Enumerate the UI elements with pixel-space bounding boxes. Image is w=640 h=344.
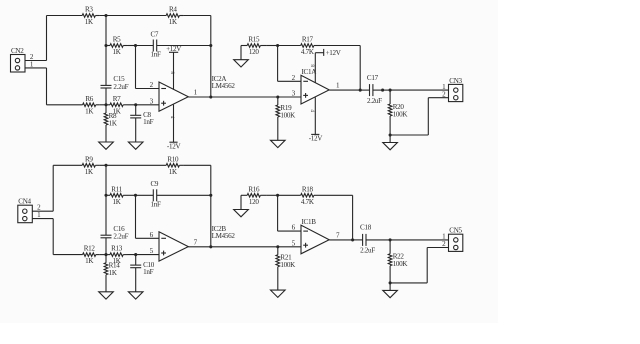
wire <box>266 194 277 196</box>
svg-text:1K: 1K <box>85 257 94 265</box>
svg-text:R13: R13 <box>111 245 123 253</box>
capacitor C10 1nF <box>130 255 155 292</box>
wire inverting input <box>135 46 137 89</box>
capacitor C7 1nF <box>136 30 211 58</box>
svg-text:100K: 100K <box>280 261 296 269</box>
power -12V <box>309 97 324 142</box>
wire output <box>329 239 354 241</box>
ground <box>271 290 286 297</box>
wire <box>183 164 210 166</box>
connector CN4 <box>18 198 33 223</box>
wire <box>136 88 160 90</box>
svg-text:1K: 1K <box>109 119 118 127</box>
wire <box>427 247 448 249</box>
wire <box>277 195 279 231</box>
op-amp IC2A LM4562 <box>159 82 188 111</box>
svg-text:100K: 100K <box>393 260 409 268</box>
wire to output connector <box>390 89 448 91</box>
junction <box>209 44 212 47</box>
IC2B label <box>212 225 236 240</box>
wire <box>383 89 391 91</box>
svg-text:C18: C18 <box>360 224 372 232</box>
resistor R14 1K <box>104 255 120 292</box>
ground <box>128 292 143 299</box>
capacitor C9 1nF <box>136 180 211 208</box>
resistor R8 1K <box>104 105 118 142</box>
wire to ground <box>240 195 242 209</box>
node feedback top <box>104 14 107 17</box>
svg-text:R7: R7 <box>113 95 121 103</box>
wire <box>99 164 166 166</box>
resistor R11 1K <box>106 185 128 206</box>
resistor R12 1K <box>53 245 100 266</box>
IC2A label <box>212 75 236 90</box>
junction <box>209 194 212 197</box>
svg-text:R12: R12 <box>84 245 96 253</box>
resistor R19 100K <box>276 97 296 140</box>
svg-text:+12V: +12V <box>326 49 342 57</box>
wire <box>277 46 279 82</box>
wire <box>389 135 391 143</box>
wire <box>278 230 301 232</box>
wire down to input row <box>46 68 48 105</box>
wire <box>389 283 391 291</box>
svg-text:1K: 1K <box>113 198 122 206</box>
junction <box>389 89 392 92</box>
wire feedback vertical <box>352 195 354 240</box>
junction <box>381 89 384 92</box>
wire <box>426 248 428 283</box>
svg-text:1K: 1K <box>169 18 178 26</box>
ground <box>128 142 143 149</box>
wire up to feedback row <box>46 16 48 61</box>
wire feedback vertical <box>359 46 361 91</box>
capacitor C17 2.2uF <box>361 74 382 105</box>
junction <box>104 44 107 47</box>
wire <box>183 15 210 17</box>
junction <box>134 44 137 47</box>
junction <box>134 103 137 106</box>
svg-text:R11: R11 <box>111 185 122 193</box>
wire signal to second stage <box>188 96 301 98</box>
ground <box>383 143 398 150</box>
svg-text:1K: 1K <box>85 107 94 115</box>
wire <box>278 80 301 82</box>
svg-text:1K: 1K <box>113 48 122 56</box>
wire <box>105 165 107 195</box>
svg-text:120: 120 <box>249 48 259 56</box>
wire <box>266 45 277 47</box>
wire <box>428 97 448 99</box>
svg-text:LM4562: LM4562 <box>212 232 236 240</box>
ground <box>271 140 286 147</box>
wire <box>427 98 429 135</box>
wire <box>99 15 166 17</box>
node output IC2A <box>209 95 212 98</box>
wire <box>128 45 136 47</box>
resistor R20 100K <box>388 90 408 135</box>
node feedback IC1B <box>351 238 354 241</box>
ground <box>383 290 398 297</box>
junction <box>389 133 392 136</box>
resistor R10 1K <box>166 155 183 176</box>
svg-text:C17: C17 <box>367 74 379 82</box>
svg-text:CN2: CN2 <box>11 47 24 55</box>
junction <box>389 281 392 284</box>
wire output <box>329 89 361 91</box>
ground <box>99 142 114 149</box>
svg-text:2.2uF: 2.2uF <box>113 83 128 91</box>
svg-text:1K: 1K <box>109 269 118 277</box>
junction <box>276 44 279 47</box>
wire <box>320 194 353 196</box>
wire <box>128 104 159 106</box>
svg-text:120: 120 <box>249 198 259 206</box>
svg-text:1nF: 1nF <box>143 118 153 126</box>
capacitor C15 2.2uF <box>101 46 129 105</box>
wire feedback vertical <box>210 165 212 247</box>
resistor R4 1K <box>166 6 183 27</box>
svg-text:CN3: CN3 <box>449 77 462 85</box>
op-amp IC1A <box>301 75 329 104</box>
svg-text:CN5: CN5 <box>449 227 462 235</box>
wire <box>128 194 136 196</box>
power +12V <box>315 49 341 83</box>
junction <box>276 194 279 197</box>
junction <box>104 253 107 256</box>
resistor R6 1K <box>47 95 100 116</box>
svg-text:2.2uF: 2.2uF <box>360 247 375 255</box>
wire ground return <box>390 134 428 136</box>
svg-text:1K: 1K <box>85 18 94 26</box>
resistor R22 100K <box>388 240 408 283</box>
wire CN2 pin1 <box>25 67 47 69</box>
svg-text:CN4: CN4 <box>18 198 31 206</box>
svg-text:R16: R16 <box>248 185 260 193</box>
node feedback IC1A <box>359 89 362 92</box>
wire up to feedback row <box>52 165 54 211</box>
junction <box>104 194 107 197</box>
svg-text:-12V: -12V <box>309 134 324 142</box>
ground <box>234 60 249 67</box>
svg-text:4.7K: 4.7K <box>301 48 315 56</box>
wire down to input row <box>52 219 54 255</box>
wire <box>100 104 110 106</box>
wire to ground <box>240 46 242 60</box>
junction <box>134 194 137 197</box>
resistor R21 100K <box>276 247 296 290</box>
resistor R3 1K <box>47 6 100 27</box>
connector CN5 <box>449 227 463 252</box>
resistor R18 4.7K <box>278 185 320 206</box>
junction <box>104 103 107 106</box>
power -12V <box>167 105 182 151</box>
wire CN4 pin1 <box>32 218 53 220</box>
op-amp IC1B <box>301 225 329 254</box>
resistor R7 1K <box>110 95 128 116</box>
svg-text:C7: C7 <box>150 30 158 38</box>
resistor R9 1K <box>53 155 99 176</box>
wire inverting input <box>135 195 137 238</box>
svg-text:1nF: 1nF <box>151 201 161 209</box>
capacitor C8 1nF <box>130 105 153 142</box>
svg-text:100K: 100K <box>280 111 296 119</box>
svg-text:R17: R17 <box>302 36 314 44</box>
svg-text:R5: R5 <box>113 36 121 44</box>
node output IC2B <box>209 245 212 248</box>
capacitor C18 2.2uF <box>354 224 390 255</box>
wire <box>128 254 159 256</box>
svg-text:C9: C9 <box>150 180 158 188</box>
power +12V <box>166 45 182 90</box>
junction <box>134 253 137 256</box>
svg-text:100K: 100K <box>393 110 409 118</box>
svg-text:-12V: -12V <box>167 142 182 150</box>
svg-text:1K: 1K <box>169 168 178 176</box>
junction <box>389 238 392 241</box>
resistor R5 1K <box>106 36 128 57</box>
wire <box>320 45 360 47</box>
svg-text:2.2uF: 2.2uF <box>113 233 128 241</box>
svg-text:1nF: 1nF <box>151 51 161 59</box>
svg-text:R18: R18 <box>302 185 314 193</box>
svg-text:R10: R10 <box>167 155 179 163</box>
svg-text:R3: R3 <box>85 6 93 14</box>
svg-text:IC1B: IC1B <box>302 218 317 226</box>
junction <box>276 245 279 248</box>
op-amp IC2B LM4562 <box>159 232 188 261</box>
svg-text:2.2uF: 2.2uF <box>367 97 382 105</box>
wire CN2 pin2 <box>25 60 47 62</box>
svg-text:R4: R4 <box>169 6 177 14</box>
resistor R17 4.7K <box>278 36 320 57</box>
resistor R13 1K <box>110 245 128 266</box>
wire <box>105 16 107 46</box>
svg-text:R6: R6 <box>85 95 93 103</box>
connector CN2 <box>11 47 26 72</box>
ground <box>234 210 249 217</box>
wire ground return <box>390 282 427 284</box>
resistor R15 120 <box>241 36 266 57</box>
capacitor C16 2.2uF <box>101 195 129 254</box>
svg-text:LM4562: LM4562 <box>212 82 236 90</box>
ground <box>99 292 114 299</box>
wire to output connector <box>390 239 448 241</box>
wire signal to second stage <box>188 246 301 248</box>
svg-text:4.7K: 4.7K <box>301 198 315 206</box>
wire <box>136 237 160 239</box>
svg-text:1nF: 1nF <box>143 268 153 276</box>
connector CN3 <box>449 77 463 102</box>
svg-text:R9: R9 <box>85 155 93 163</box>
wire CN4 pin2 <box>32 210 53 212</box>
svg-text:R15: R15 <box>248 36 260 44</box>
wire feedback vertical <box>210 16 212 98</box>
resistor R16 120 <box>241 185 266 206</box>
node feedback top <box>104 164 107 167</box>
junction <box>276 95 279 98</box>
svg-text:1K: 1K <box>85 168 94 176</box>
wire <box>100 254 110 256</box>
